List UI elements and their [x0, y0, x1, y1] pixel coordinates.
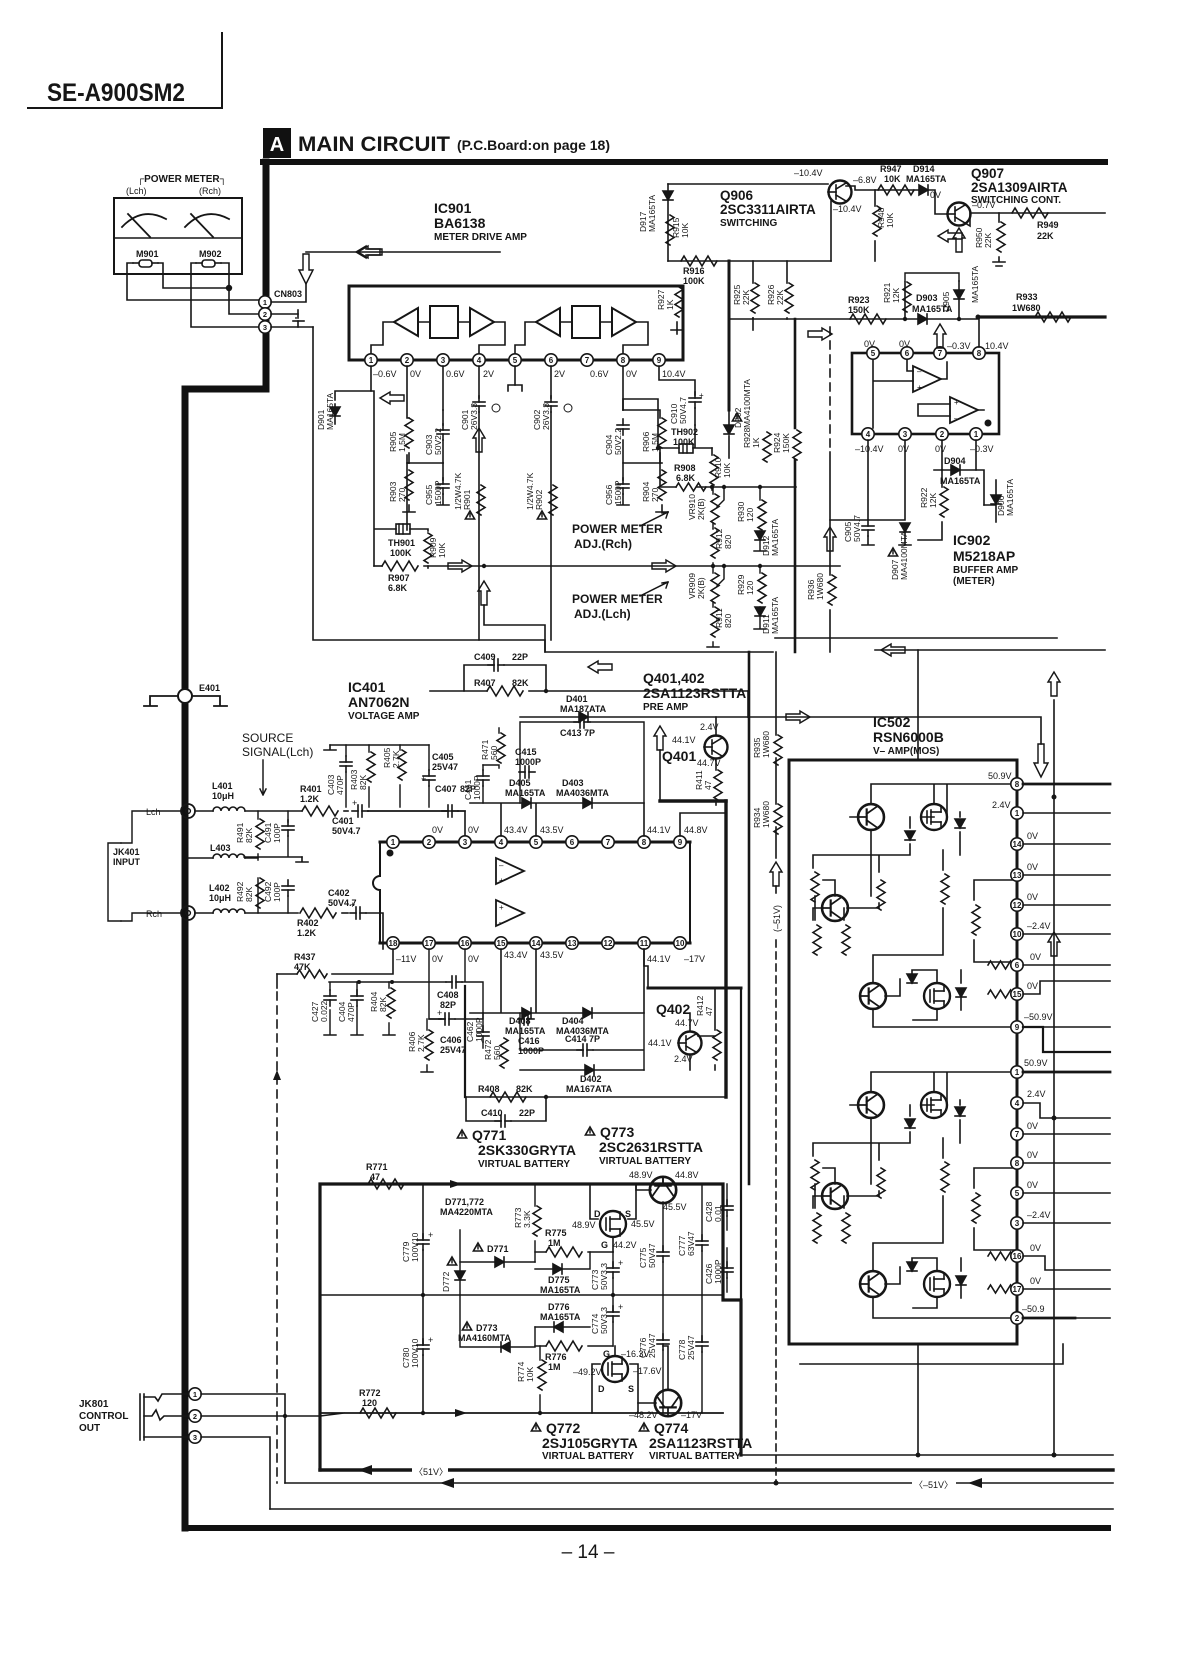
svg-text:3: 3 [903, 430, 908, 439]
cell diode mid [905, 831, 915, 840]
D907 MA4100MTA [900, 523, 910, 532]
svg-text:0V: 0V [1027, 1150, 1038, 1160]
arrowhead left on 51V [358, 1465, 372, 1475]
svg-text:MA165TA: MA165TA [540, 1285, 581, 1295]
C410 22P loop [466, 1097, 546, 1121]
JK801 pin 2 [189, 1410, 201, 1422]
zig before pin15 [988, 990, 1018, 998]
pin 5 [509, 354, 521, 366]
Q907 emitter wire right [965, 213, 1105, 226]
svg-text:0V: 0V [864, 339, 875, 349]
top pins [387, 836, 399, 848]
svg-text:1: 1 [1015, 809, 1020, 818]
svg-text:13: 13 [1013, 871, 1022, 880]
op-amp chain Lch: tri left [394, 308, 418, 336]
D903 [918, 314, 927, 324]
svg-text:10K: 10K [885, 213, 895, 228]
svg-text:–10.4V: –10.4V [833, 204, 862, 214]
svg-text:C410: C410 [481, 1108, 503, 1118]
svg-text:D903: D903 [916, 293, 938, 303]
pin17 wire down [429, 949, 441, 1019]
R773 3.3K [533, 1206, 541, 1236]
svg-text:E401: E401 [199, 683, 220, 693]
rail y566 junction dot [482, 564, 486, 568]
svg-text:MA165TA: MA165TA [505, 1026, 546, 1036]
D772 [447, 1257, 456, 1265]
svg-text:2: 2 [940, 430, 945, 439]
svg-text:R408: R408 [478, 1084, 500, 1094]
chain Lch box [430, 306, 458, 338]
svg-text:1000P: 1000P [518, 1046, 544, 1056]
svg-text:25V47: 25V47 [686, 1335, 696, 1360]
C461 1000P [477, 770, 489, 786]
thick vertical rail A [748, 652, 751, 1184]
svg-text:10: 10 [676, 939, 685, 948]
svg-text:C406: C406 [440, 1035, 462, 1045]
meter M902 glyph [185, 214, 229, 237]
svg-text:8: 8 [621, 356, 626, 365]
chain Lch tri right [470, 308, 494, 336]
svg-text:R933: R933 [1016, 292, 1038, 302]
pin1 wire to D901 [335, 366, 371, 400]
svg-text:5: 5 [513, 356, 518, 365]
cell mos bottom-right [924, 983, 950, 1009]
C955 1500P [442, 463, 444, 480]
Q771 labels [457, 1130, 466, 1138]
JK801 pin3 wire [201, 1437, 270, 1509]
left net vertical [371, 391, 396, 566]
R935 1W680 [774, 735, 782, 765]
svg-text:PRE AMP: PRE AMP [643, 702, 689, 713]
svg-text:63V47: 63V47 [686, 1231, 696, 1256]
svg-text:10K: 10K [884, 174, 901, 184]
svg-text:–17V: –17V [684, 954, 705, 964]
svg-text:D401: D401 [566, 694, 588, 704]
svg-text:OUT: OUT [79, 1423, 100, 1434]
svg-text:10μH: 10μH [209, 893, 231, 903]
svg-text:1W680: 1W680 [815, 573, 825, 600]
svg-text:1M: 1M [548, 1238, 561, 1248]
Lch rail junctions [711, 564, 715, 568]
svg-text:R776: R776 [545, 1352, 567, 1362]
chain Rch tri right [612, 308, 636, 336]
svg-text:2.7K: 2.7K [391, 750, 401, 768]
arrow on rail 2 [652, 560, 676, 572]
svg-text:9: 9 [657, 356, 662, 365]
Q401 wires [715, 717, 717, 770]
D402 MA167ATA [585, 1065, 594, 1075]
chain Rch wires [515, 322, 648, 354]
svg-text:9: 9 [678, 838, 683, 847]
cell diode low mid [907, 1262, 917, 1271]
svg-text:A: A [270, 134, 284, 156]
IC901 box [349, 286, 683, 360]
IC502 box [789, 760, 1017, 1344]
svg-text:R901: R901 [462, 489, 472, 510]
Q774 BJT [655, 1390, 681, 1416]
svg-text:1000P: 1000P [474, 1017, 484, 1042]
JK801 pin 3 [189, 1431, 201, 1443]
pin 1b [1011, 1066, 1023, 1078]
svg-text:METER DRIVE AMP: METER DRIVE AMP [434, 232, 527, 243]
upper Rch network row [470, 803, 644, 836]
D775 MA165TA [553, 1264, 562, 1274]
thick rail 44V [660, 799, 726, 802]
C910 50V4.7 [659, 366, 695, 395]
pin 10 [1011, 928, 1023, 940]
svg-text:14: 14 [1013, 840, 1022, 849]
svg-text:–10.4V: –10.4V [855, 444, 884, 454]
svg-text:IC902: IC902 [953, 532, 991, 548]
R912 820 [711, 528, 719, 558]
bottom rail thick [648, 987, 741, 990]
svg-text:6: 6 [905, 349, 910, 358]
arrow on rail [448, 560, 472, 572]
C426 1000P [721, 1262, 733, 1278]
JK801 jack symbol [140, 1394, 189, 1440]
arrow left above Q401 [588, 661, 612, 673]
svg-text:0V: 0V [1027, 1121, 1038, 1131]
svg-text:14: 14 [532, 939, 541, 948]
svg-text:2SK330GRYTA: 2SK330GRYTA [478, 1142, 576, 1158]
svg-text:–2.4V: –2.4V [1027, 1210, 1051, 1220]
svg-text:45.5V: 45.5V [663, 1202, 687, 1212]
pin 9 [653, 354, 665, 366]
svg-text:50V2.2: 50V2.2 [613, 428, 623, 455]
junction dots [957, 317, 961, 321]
svg-text:0V: 0V [1027, 1180, 1038, 1190]
svg-text:2.4V: 2.4V [1027, 1089, 1046, 1099]
svg-text:R772: R772 [359, 1388, 381, 1398]
svg-text:44.1V: 44.1V [647, 954, 671, 964]
wires meters to CN803 [127, 263, 260, 327]
cell resistors [811, 1160, 819, 1190]
svg-text:1500P: 1500P [613, 480, 623, 505]
R408 rail [466, 1096, 726, 1098]
svg-text:1W680: 1W680 [761, 731, 771, 758]
svg-text:2: 2 [193, 1412, 197, 1421]
pin 17 [1011, 1283, 1023, 1295]
svg-text:48.9V: 48.9V [629, 1170, 653, 1180]
C775 50V47 [657, 1246, 669, 1262]
R921 12K [904, 282, 906, 319]
svg-text:2: 2 [405, 356, 410, 365]
svg-text:17: 17 [425, 939, 434, 948]
svg-text:C415: C415 [515, 747, 537, 757]
R915 10K [666, 215, 674, 245]
arrow up left of Q401 [654, 726, 666, 750]
pins 4/3 verticals to row [830, 440, 905, 520]
R405 2.7K [398, 750, 406, 780]
bus y650 [875, 649, 1105, 651]
44V rail right of Q402 [740, 988, 742, 1455]
svg-text:R947: R947 [880, 164, 902, 174]
svg-text:–: – [499, 861, 504, 870]
svg-text:IC502: IC502 [873, 714, 911, 730]
R948 10K [874, 190, 876, 206]
svg-text:100P: 100P [272, 882, 282, 902]
svg-text:10.4V: 10.4V [662, 369, 686, 379]
pin 2 [1011, 1312, 1023, 1324]
pin 6 [545, 354, 557, 366]
pin 13 [1011, 869, 1023, 881]
svg-text:44.2V: 44.2V [613, 1240, 637, 1250]
svg-text:R908: R908 [674, 463, 696, 473]
Q402 transistor [679, 1032, 702, 1055]
svg-text:1: 1 [263, 298, 267, 307]
svg-text:0V: 0V [898, 444, 909, 454]
svg-text:2K(B): 2K(B) [696, 577, 706, 599]
D773 MA4160MTA [462, 1322, 471, 1330]
zig before pin16 [988, 1252, 1018, 1260]
arrow up on chain [770, 862, 782, 886]
thick vertical from rail down [728, 261, 731, 410]
svg-text:1.5M: 1.5M [397, 433, 407, 452]
svg-text:270: 270 [397, 488, 407, 502]
svg-text:15: 15 [497, 939, 506, 948]
thick 51V line [320, 1468, 1113, 1471]
R407 82K [430, 690, 748, 692]
pin1 dot [387, 850, 394, 857]
C492 100P column [287, 896, 289, 913]
svg-text:MA165TA: MA165TA [940, 476, 981, 486]
cell diode low mid [907, 974, 917, 983]
rail y319 [677, 318, 978, 334]
svg-text:MA165TA: MA165TA [770, 597, 780, 634]
pin row bold line [349, 359, 683, 362]
svg-text:+: + [499, 903, 504, 912]
svg-text:7: 7 [606, 838, 611, 847]
pin 7 [581, 354, 593, 366]
svg-text:50V4.7: 50V4.7 [332, 826, 361, 836]
svg-text:82K: 82K [244, 887, 254, 902]
svg-text:10K: 10K [680, 223, 690, 238]
R491 82K column [257, 811, 259, 819]
E401 ground brackets [144, 696, 227, 706]
svg-text:–50.9: –50.9 [1022, 1304, 1045, 1314]
svg-text:ADJ.(Lch): ADJ.(Lch) [574, 607, 631, 621]
svg-text:R437: R437 [294, 952, 316, 962]
svg-text:47: 47 [703, 780, 713, 790]
svg-text:2: 2 [1015, 1314, 1020, 1323]
pin 16 [1011, 1250, 1023, 1262]
svg-text:C402: C402 [328, 888, 350, 898]
pin9 wire [680, 813, 726, 836]
wire rail321 up to 281 loop [905, 273, 959, 281]
svg-text:BA6138: BA6138 [434, 215, 486, 231]
stepped wires pins 15/16/4 [1023, 981, 1110, 1270]
svg-text:4: 4 [866, 430, 871, 439]
Q774 label [639, 1423, 648, 1431]
svg-text:INPUT: INPUT [113, 857, 141, 867]
svg-text:–11V: –11V [396, 954, 416, 964]
svg-text:ADJ.(Rch): ADJ.(Rch) [574, 537, 632, 551]
IC902 box [852, 353, 999, 434]
svg-text:2.7K: 2.7K [416, 1034, 426, 1052]
R929 120 [758, 573, 766, 603]
svg-text:6: 6 [549, 356, 554, 365]
svg-text:22P: 22P [519, 1108, 535, 1118]
svg-text:POWER METER: POWER METER [572, 522, 663, 536]
R926 22K [786, 261, 788, 283]
pin3 stub [442, 366, 444, 410]
svg-text:2SJ105GRYTA: 2SJ105GRYTA [542, 1435, 638, 1451]
R902 1/2W4.7K [549, 485, 557, 515]
svg-text:–: – [499, 918, 504, 927]
svg-text:43.5V: 43.5V [540, 950, 564, 960]
svg-text:–0.3V: –0.3V [970, 444, 994, 454]
svg-text:AN7062N: AN7062N [348, 694, 409, 710]
svg-text:C405: C405 [432, 752, 454, 762]
mid rail to gnd [244, 836, 302, 860]
TH901 thermistor [396, 524, 410, 534]
C401 50V4.7 [344, 810, 348, 812]
svg-text:3: 3 [441, 356, 446, 365]
cell wires [813, 784, 1017, 1027]
IC902 opamp2 [950, 397, 978, 423]
svg-text:0V: 0V [626, 369, 637, 379]
R403 82K [367, 752, 375, 782]
C904 50V2.2 [623, 366, 660, 463]
opamp1 [496, 858, 524, 884]
svg-text:MA165TA: MA165TA [505, 788, 546, 798]
svg-text:120: 120 [745, 581, 755, 595]
cell diode mid [905, 1119, 915, 1128]
bottom rail inside [320, 1412, 723, 1414]
svg-text:–0.7V: –0.7V [972, 200, 996, 210]
svg-text:D775: D775 [548, 1275, 570, 1285]
svg-text:9: 9 [1015, 1023, 1020, 1032]
svg-text:TH902: TH902 [671, 427, 698, 437]
dot inside IC902 [985, 420, 992, 427]
svg-text:1500P: 1500P [433, 480, 443, 505]
Q772 label [531, 1423, 540, 1431]
svg-text:47: 47 [704, 1006, 714, 1016]
svg-text:100V10: 100V10 [410, 1232, 420, 1262]
dashed -51V line [775, 886, 777, 1484]
svg-text:3: 3 [1015, 1219, 1020, 1228]
R934 1W680 [774, 804, 782, 834]
svg-text:MA187ATA: MA187ATA [560, 704, 607, 714]
IC902 pin 4 [862, 428, 874, 440]
Q402 wires [690, 988, 715, 1070]
svg-text:D: D [598, 1384, 605, 1394]
svg-text:6.8K: 6.8K [388, 583, 408, 593]
svg-text:–0.6V: –0.6V [373, 369, 397, 379]
svg-text:22P: 22P [512, 652, 528, 662]
svg-text:12: 12 [1013, 901, 1022, 910]
svg-text:2.4V: 2.4V [992, 800, 1011, 810]
cell diode right [955, 1107, 965, 1116]
svg-text:MA4100MTA: MA4100MTA [899, 531, 909, 580]
svg-text:82K: 82K [516, 1084, 533, 1094]
svg-text:VIRTUAL BATTERY: VIRTUAL BATTERY [542, 1451, 634, 1462]
svg-text:26V3.3: 26V3.3 [469, 403, 479, 430]
svg-text:2: 2 [427, 838, 432, 847]
D905 [958, 281, 960, 319]
svg-text:22K: 22K [1037, 231, 1054, 241]
svg-text:45.5V: 45.5V [631, 1219, 655, 1229]
R933 1W680 thick rail [978, 315, 1105, 318]
svg-text:150K: 150K [781, 433, 791, 453]
wire Q906 to Q907 [846, 186, 947, 214]
svg-text:470P: 470P [346, 1002, 356, 1022]
IC902 opamp1 [913, 366, 941, 392]
svg-text:Q906: Q906 [720, 188, 754, 203]
svg-text:2SC3311AIRTA: 2SC3311AIRTA [720, 202, 816, 217]
pin 14 [1011, 838, 1023, 850]
bottom thick border line [185, 1525, 1108, 1531]
zig before pin17 [988, 1285, 1018, 1293]
svg-text:MA165TA: MA165TA [647, 195, 657, 232]
svg-text:G: G [601, 1240, 608, 1250]
bottom pins [387, 937, 399, 949]
svg-text:50V4.7: 50V4.7 [678, 397, 688, 424]
svg-text:120: 120 [362, 1398, 377, 1408]
svg-text:┌POWER METER┐: ┌POWER METER┐ [137, 174, 227, 185]
svg-text:0V: 0V [432, 825, 443, 835]
svg-text:C407: C407 [435, 784, 457, 794]
svg-text:–2.4V: –2.4V [1027, 921, 1051, 931]
cap at CN803 pin2 [293, 310, 304, 327]
mid rail [320, 1294, 723, 1296]
svg-text:82K: 82K [512, 678, 529, 688]
pin 9 [1011, 1021, 1023, 1033]
C780 100V10 [417, 1339, 429, 1355]
svg-text:43.5V: 43.5V [540, 825, 564, 835]
arrowheads on -51V [440, 1478, 454, 1488]
svg-text:–0.3V: –0.3V [947, 341, 971, 351]
arrow up at pin4 col [473, 428, 485, 452]
svg-text:1: 1 [974, 430, 979, 439]
svg-text:7: 7 [585, 356, 590, 365]
svg-text:10K: 10K [437, 543, 447, 558]
svg-text:560: 560 [489, 746, 499, 760]
pin 2 [401, 354, 413, 366]
svg-text:L403: L403 [210, 843, 231, 853]
pin8 wire up [978, 317, 980, 347]
svg-text:0V: 0V [935, 444, 946, 454]
svg-text:MA167ATA: MA167ATA [566, 1084, 613, 1094]
svg-text:0V: 0V [410, 369, 421, 379]
pin wires to right [1023, 784, 1110, 1318]
svg-text:R902: R902 [534, 489, 544, 510]
C902 26V3.3 [550, 366, 552, 398]
svg-text:Q907: Q907 [971, 166, 1004, 181]
R916 rail [668, 260, 831, 262]
cell bjt mid-left [822, 1183, 848, 1209]
svg-text:820: 820 [723, 535, 733, 549]
C774 50V3.3 [607, 1306, 619, 1322]
svg-text:–17V: –17V [681, 1410, 702, 1420]
svg-text:JK401: JK401 [113, 847, 140, 857]
arrow on bottom rail [455, 1409, 467, 1417]
Q401 transistor [705, 736, 728, 759]
svg-text:82K: 82K [358, 775, 368, 790]
cell bjt top-left [858, 804, 884, 830]
svg-text:+: + [421, 774, 426, 784]
wire to Q906 [668, 183, 828, 185]
R909 10K [410, 529, 428, 531]
svg-text:100P: 100P [272, 823, 282, 843]
svg-text:1.2K: 1.2K [297, 928, 317, 938]
C778 25V47 [696, 1336, 708, 1352]
wire y252 with left arrow [306, 251, 500, 253]
svg-text:6.8K: 6.8K [676, 473, 696, 483]
svg-text:44.1V: 44.1V [672, 735, 696, 745]
svg-text:82P: 82P [440, 1000, 456, 1010]
svg-text:SIGNAL(Lch): SIGNAL(Lch) [242, 745, 313, 759]
